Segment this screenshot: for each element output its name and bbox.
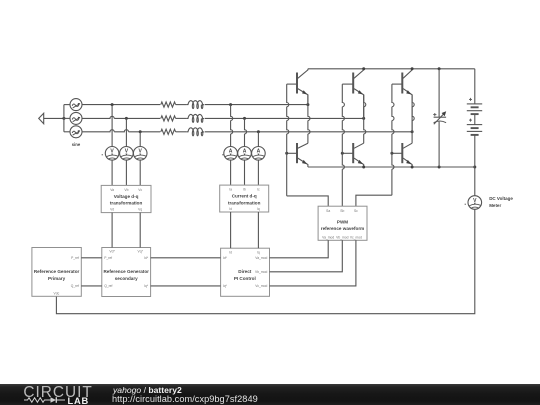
wire bridge midpoint a down — [308, 95, 310, 143]
node junction on source bus — [62, 117, 65, 120]
wire gate bus a to Sa — [287, 196, 329, 206]
wire phase a line — [82, 104, 308, 106]
wire phase b line — [82, 116, 364, 118]
svg-text:Ib: Ib — [243, 188, 246, 192]
sine voltage source V2 — [70, 112, 82, 124]
node gate bus b lower base — [341, 152, 344, 155]
wire ammeter Ac to block — [257, 160, 259, 185]
block Direct PI Control — [221, 248, 270, 296]
svg-text:Sa: Sa — [326, 209, 330, 213]
svg-text:Id: Id — [229, 207, 232, 211]
wire voltmeter Vb drop — [125, 118, 127, 146]
wire resistor to inductor c — [176, 131, 187, 133]
voltmeter DC Voltage Meter — [468, 196, 482, 210]
node phase c voltmeter tap — [139, 130, 142, 133]
svg-text:Reference Generator: Reference Generator — [34, 269, 80, 274]
wire gate bus a vertical — [287, 84, 289, 196]
svg-text:Vdc: Vdc — [54, 291, 60, 295]
wire top rail to battery — [474, 69, 476, 104]
ammeter AM3 — [252, 147, 266, 161]
ground antenna symbol — [39, 113, 44, 124]
block Reference Generator secondary — [102, 248, 151, 297]
node gate bus c lower base — [390, 152, 393, 155]
wire ammeter Ac drop — [257, 132, 259, 147]
wire Id to PI — [230, 212, 232, 248]
svg-text:Sb: Sb — [340, 209, 344, 213]
wire bus to source V3 — [64, 131, 70, 133]
wire voltmeter Va drop — [111, 105, 113, 147]
wire Vd to Vd* — [111, 213, 113, 248]
node top rail capacitor — [438, 67, 441, 70]
node gate bus a lower base — [285, 152, 288, 155]
node phase a voltmeter tap — [111, 103, 114, 106]
wire Vc_mod — [270, 240, 356, 286]
label ammeter minus tick — [222, 154, 223, 156]
svg-text:Iq: Iq — [257, 250, 260, 254]
node phase b voltmeter tap — [125, 117, 128, 120]
wire P_ref — [81, 257, 102, 259]
footer url — [112, 394, 258, 404]
svg-text:transformation: transformation — [110, 201, 143, 206]
inductor La — [186, 101, 204, 109]
svg-text:Id*: Id* — [144, 256, 149, 260]
wire gate bus c vertical — [392, 84, 394, 195]
svg-text:Va_mod: Va_mod — [255, 256, 267, 260]
node bottom rail phase b — [362, 166, 365, 169]
wire source bus vertical — [63, 105, 65, 132]
svg-text:P_ref: P_ref — [71, 256, 79, 260]
transistor Q3 upper NPN — [392, 69, 412, 132]
svg-text:Vb: Vb — [124, 188, 128, 192]
resistor Rb — [161, 116, 176, 121]
svg-text:Q_ref: Q_ref — [71, 284, 79, 288]
voltmeter VM2 — [120, 147, 134, 161]
footer bar — [0, 384, 540, 405]
wire bus to source V1 — [64, 104, 70, 106]
wire Q_ref — [81, 285, 102, 287]
node bottom rail capacitor — [438, 166, 441, 169]
label voltmeter minus tick — [102, 154, 103, 156]
block Reference Generator Primary — [32, 248, 81, 297]
svg-text:PWM: PWM — [337, 220, 348, 225]
wire ammeter Aa to block — [230, 160, 232, 185]
capacitor C1 variable polarized — [433, 69, 446, 167]
svg-text:P_ref: P_ref — [104, 256, 112, 260]
inductor Lc — [186, 128, 204, 136]
node phase b bridge midpoint — [362, 117, 365, 120]
wire Id* reference — [151, 257, 221, 259]
wire voltmeter Va to block — [111, 160, 113, 185]
svg-text:Iq*: Iq* — [144, 284, 149, 288]
battery B1 — [467, 98, 482, 114]
voltmeter VM3 — [133, 147, 147, 161]
wire ammeter Ab drop — [245, 118, 247, 146]
resistor Rc — [161, 129, 176, 134]
svg-text:Vq*: Vq* — [138, 250, 144, 254]
svg-text:Direct: Direct — [238, 269, 251, 274]
svg-text:Q_ref: Q_ref — [104, 284, 112, 288]
svg-text:Vc_mod: Vc_mod — [255, 284, 267, 288]
svg-text:Va_mod: Va_mod — [322, 235, 334, 239]
wire ammeter Ab to block — [244, 160, 246, 185]
node phase b ammeter tap — [243, 117, 246, 120]
svg-text:Vq: Vq — [138, 207, 142, 211]
footer username / title — [113, 385, 182, 395]
CircuitLab logo text — [23, 384, 92, 402]
wire battery interconnect — [474, 114, 476, 125]
svg-text:Primary: Primary — [48, 276, 66, 281]
node top rail phase c — [411, 67, 414, 70]
wire bottom DC rail — [308, 166, 475, 168]
wire bridge midpoint c down — [412, 95, 414, 143]
svg-text:Id*: Id* — [223, 256, 228, 260]
wire Vq to Vq* — [139, 213, 141, 248]
svg-text:Current d-q: Current d-q — [232, 194, 257, 199]
wire bus to source V2 — [64, 117, 70, 119]
wire gate bus b vertical to Sb — [342, 84, 344, 206]
wire voltmeter Vc drop — [139, 132, 141, 147]
wire resistor to inductor a — [176, 104, 187, 106]
wire ammeter Aa drop — [231, 105, 233, 147]
node bottom rail battery — [473, 166, 476, 169]
svg-text:Vb_mod: Vb_mod — [255, 270, 267, 274]
CircuitLab logo schematic glyph — [24, 396, 70, 404]
wire bridge midpoint b down — [364, 95, 366, 143]
transistor Q6 lower NPN — [392, 143, 412, 167]
label DC meter minus tick — [465, 203, 466, 205]
svg-text:Iq: Iq — [257, 207, 260, 211]
svg-text:secondary: secondary — [115, 276, 138, 281]
wire ground to bus — [44, 117, 64, 119]
svg-text:Vc: Vc — [138, 188, 142, 192]
svg-text:Reference Generator: Reference Generator — [103, 269, 149, 274]
svg-text:Vb_mod: Vb_mod — [336, 235, 348, 239]
wire resistor to inductor b — [176, 117, 187, 119]
node phase c bridge midpoint — [411, 130, 414, 133]
wire Va_mod — [270, 240, 329, 257]
resistor Ra — [161, 102, 176, 107]
svg-text:Voltage d-q: Voltage d-q — [114, 194, 139, 199]
node top rail phase b — [362, 67, 365, 70]
sine voltage source V3 — [70, 126, 82, 138]
transistor Q1 upper NPN — [287, 69, 308, 105]
wire voltmeter Vb to block — [125, 160, 127, 185]
node phase c ammeter tap — [257, 130, 260, 133]
svg-text:Sc: Sc — [354, 209, 358, 213]
svg-text:Iq*: Iq* — [223, 284, 228, 288]
block PWM reference waveform — [318, 206, 367, 240]
battery B2 — [467, 119, 482, 135]
wire bottom rail to DC meter — [474, 167, 476, 196]
ammeter AM2 — [238, 147, 252, 161]
wire gate bus c to Sc — [356, 195, 392, 206]
wire Iq to PI — [257, 212, 259, 248]
svg-text:Vc_mod: Vc_mod — [350, 235, 362, 239]
voltmeter VM1 — [105, 147, 119, 161]
svg-text:transformation: transformation — [228, 200, 261, 205]
node bottom rail phase c — [411, 166, 414, 169]
transistor Q4 lower NPN — [287, 143, 308, 167]
svg-text:Ic: Ic — [257, 188, 260, 192]
svg-text:DC Voltage: DC Voltage — [489, 196, 513, 201]
svg-text:Vd*: Vd* — [109, 250, 115, 254]
wire battery to bottom rail — [474, 135, 476, 167]
wire top DC rail — [308, 68, 475, 70]
block Current d-q transformation — [220, 185, 269, 212]
svg-text:Id: Id — [229, 250, 232, 254]
transistor Q2 upper NPN — [342, 69, 363, 119]
svg-text:reference waveform: reference waveform — [321, 226, 364, 231]
svg-text:Meter: Meter — [489, 203, 501, 208]
ammeter AM1 — [224, 147, 238, 161]
svg-text:Va: Va — [110, 188, 114, 192]
block Voltage d-q transformation — [101, 185, 151, 212]
wire phase c line — [82, 130, 412, 132]
node phase a bridge midpoint — [306, 103, 309, 106]
sine voltage source V1 — [70, 99, 82, 111]
transistor Q5 lower NPN — [342, 143, 363, 167]
svg-text:Vd: Vd — [110, 207, 114, 211]
node phase a ammeter tap — [229, 103, 232, 106]
svg-text:Ia: Ia — [229, 188, 232, 192]
wire Iq* reference — [151, 285, 221, 287]
svg-text:PI Control: PI Control — [234, 276, 256, 281]
wire DC meter to Vdc feedback — [56, 209, 474, 313]
svg-text:sine: sine — [72, 142, 81, 147]
wire Vb_mod — [270, 240, 343, 271]
inductor Lb — [186, 114, 204, 122]
wire voltmeter Vc to block — [139, 160, 141, 185]
